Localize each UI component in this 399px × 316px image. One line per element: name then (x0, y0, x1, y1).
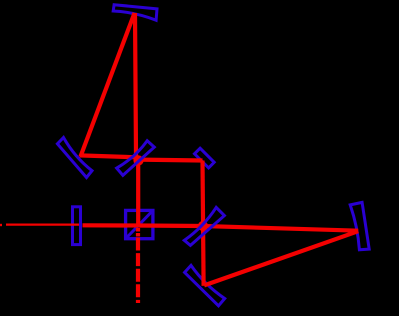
curved mirror M2 (left cavity mirror) (57, 138, 92, 178)
beamsplitter cube BS1 diagonal (126, 210, 153, 238)
curved mirror M3 (folding mirror at focus F1) (117, 141, 155, 176)
beam: dashed output below cube (short dashes) (136, 228, 140, 237)
beam: slant M1 to M2 (81, 13, 135, 157)
beam: vertical M4 through F2 to M7 (203, 161, 204, 286)
curved mirror M5 (folding mirror at focus F2) (184, 207, 224, 245)
beam: horizontal M2 through F1 to M4 (80, 155, 203, 160)
curved mirror M7 (bottom cavity mirror) (185, 265, 225, 305)
curved mirror M6 (right end mirror) (350, 202, 369, 249)
beam: input axis (thin) left edge through etalon (6, 224, 79, 226)
beamsplitter cube BS1 (126, 210, 153, 238)
focus point F1 (red circle on M3) (135, 157, 142, 164)
beam: dashed output below cube (long dashes) (136, 238, 140, 304)
beam: slant M6 to M7 (204, 231, 358, 285)
curved mirror M1 (top fold mirror) (113, 5, 157, 21)
beam: input axis left-edge speck (0, 224, 2, 226)
etalon plate E1 (73, 207, 81, 245)
focus point F2 (red circle on M5) (199, 222, 206, 229)
beam: vertical M1 through F1 to beamsplitter cube (135, 13, 138, 226)
beam: horizontal cavity axis etalon-cube-F2-M6 (83, 225, 359, 230)
flat mirror M4 (small fold mirror) (195, 148, 215, 168)
